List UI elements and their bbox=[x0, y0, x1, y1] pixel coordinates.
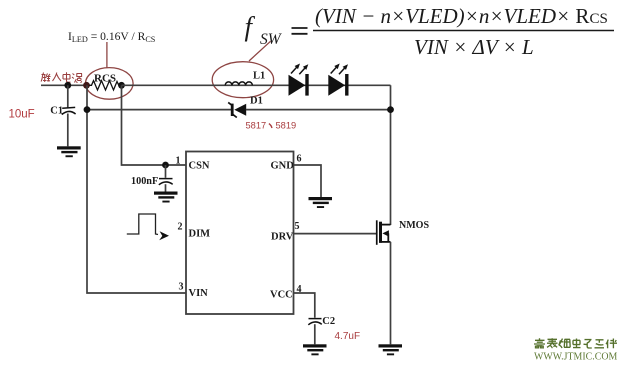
wire: D1 anode to drain vertical bbox=[246, 109, 391, 111]
wire: NMOS source down to ground bbox=[390, 242, 392, 344]
junction dot at CSN net bbox=[162, 162, 169, 169]
wire: left vertical from RCS left down to VIN bbox=[87, 85, 186, 293]
svg-text:4.7uF: 4.7uF bbox=[335, 331, 361, 342]
formula annotation: switching frequency fsw bbox=[245, 4, 615, 59]
svg-text:5: 5 bbox=[295, 221, 300, 232]
svg-text:VCC: VCC bbox=[270, 290, 293, 301]
ground under C1 bbox=[57, 146, 81, 157]
junction dot at drain net bbox=[387, 106, 394, 113]
svg-text:DIM: DIM bbox=[189, 229, 211, 240]
svg-text:C2: C2 bbox=[322, 316, 335, 327]
wire: GND pin 6 to ground bbox=[294, 165, 322, 197]
junction dot at C1 bbox=[64, 82, 71, 89]
pin number 5 bbox=[295, 221, 300, 232]
transistor NMOS Q1 bbox=[376, 220, 391, 245]
resistor RCS bbox=[89, 81, 122, 90]
svg-text:6: 6 bbox=[297, 154, 302, 165]
svg-text:RCS: RCS bbox=[94, 73, 116, 85]
capacitor 100nF bbox=[159, 165, 173, 192]
svg-text:3: 3 bbox=[179, 282, 184, 293]
svg-text:WWW.JTMIC.COM: WWW.JTMIC.COM bbox=[534, 351, 618, 363]
wire: right vertical from top corner down to NMOS drain bbox=[390, 85, 392, 225]
ground under 100nF bbox=[154, 192, 178, 203]
svg-text:(VIN − n×VLED)×n×VLED× RCS: (VIN − n×VLED)×n×VLED× RCS bbox=[315, 4, 608, 28]
label: ILED = 0.16V / RCS annotation bbox=[68, 30, 156, 44]
watermark: JTMIC Chinese characters (stroke approximation) bbox=[534, 338, 617, 348]
annotation: PWM pulse waveform into DIM bbox=[127, 214, 169, 240]
svg-text:SW: SW bbox=[260, 31, 283, 48]
pin number 2 bbox=[178, 222, 183, 233]
LED1 bbox=[289, 64, 309, 96]
svg-text:VIN: VIN bbox=[189, 288, 209, 299]
pin label VCC bbox=[270, 290, 293, 301]
inductor L1 bbox=[225, 82, 252, 85]
label RCS bbox=[94, 73, 116, 85]
pin number 4 bbox=[297, 284, 302, 295]
net label: input supply (Chinese glyph strokes) bbox=[41, 72, 82, 83]
capacitor C2 bbox=[308, 319, 322, 345]
wire: DRV pin 5 to NMOS gate bbox=[294, 233, 377, 235]
highlight ellipse around RCS bbox=[86, 68, 134, 100]
svg-text:5819: 5819 bbox=[276, 120, 297, 130]
junction dot at RCS right bbox=[118, 82, 125, 89]
value label 4.7uF bbox=[335, 331, 361, 342]
callout line from fsw formula to L1 bbox=[249, 41, 271, 61]
junction dot at RCS left bbox=[83, 82, 90, 89]
watermark: WWW.JTMIC.COM bbox=[534, 351, 618, 363]
label NMOS bbox=[399, 220, 429, 231]
ground at GND pin bbox=[309, 197, 333, 208]
wire: top net from input to RCS bbox=[41, 84, 89, 86]
junction dot at freewheeling net left bbox=[84, 106, 91, 113]
pin label CSN bbox=[189, 161, 210, 172]
wire: top net from RCS to L1 bbox=[122, 84, 391, 86]
pin label DIM bbox=[189, 229, 211, 240]
svg-text:GND: GND bbox=[271, 161, 295, 172]
IC U1 body bbox=[186, 152, 294, 315]
wire: VCC pin 4 to C2 bbox=[294, 293, 315, 318]
svg-text:D1: D1 bbox=[250, 96, 263, 107]
LED2 bbox=[328, 64, 348, 96]
pin label DRV bbox=[271, 232, 294, 243]
svg-text:VIN × ΔV × L: VIN × ΔV × L bbox=[414, 35, 534, 59]
label L1 bbox=[253, 71, 265, 82]
svg-text:L1: L1 bbox=[253, 71, 265, 82]
svg-text:CSN: CSN bbox=[189, 161, 210, 172]
svg-text:f: f bbox=[245, 12, 256, 42]
svg-text:C1: C1 bbox=[50, 106, 63, 117]
pin number 6 bbox=[297, 154, 302, 165]
highlight ellipse around L1 bbox=[212, 62, 273, 98]
callout line from ILED label to RCS bbox=[106, 42, 108, 68]
svg-text:DRV: DRV bbox=[271, 232, 294, 243]
ground under C2 bbox=[303, 344, 327, 355]
svg-text:5817: 5817 bbox=[246, 120, 267, 130]
value label 10uF bbox=[9, 109, 35, 121]
svg-text:NMOS: NMOS bbox=[399, 220, 429, 231]
svg-text:100nF: 100nF bbox=[131, 176, 158, 187]
wire: freewheeling net from left vertical to D1 bbox=[87, 109, 231, 111]
label C1 bbox=[50, 106, 63, 117]
svg-text:2: 2 bbox=[178, 222, 183, 233]
pin label VIN bbox=[189, 288, 209, 299]
pin number 1 bbox=[176, 156, 181, 167]
wire: from RCS right down and over to CSN pin 1 bbox=[122, 85, 187, 165]
value label 100nF bbox=[131, 176, 158, 187]
svg-text:ILED = 0.16V / RCS: ILED = 0.16V / RCS bbox=[68, 30, 156, 44]
svg-text:1: 1 bbox=[176, 156, 181, 167]
label D1 bbox=[250, 96, 263, 107]
capacitor C1 bbox=[62, 85, 76, 146]
diode D1 (schottky) bbox=[228, 102, 246, 117]
pin label GND bbox=[271, 161, 295, 172]
ground at NMOS source bbox=[379, 344, 403, 355]
value label 5817, 5819 bbox=[246, 120, 297, 130]
pin number 3 bbox=[179, 282, 184, 293]
svg-text:10uF: 10uF bbox=[9, 109, 35, 121]
label C2 bbox=[322, 316, 335, 327]
